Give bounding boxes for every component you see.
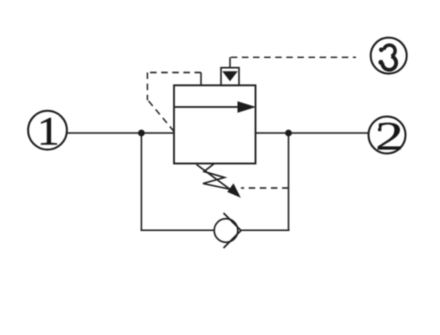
wire right branch down (288, 133, 290, 230)
junction node right (285, 130, 292, 137)
dashed drain line (241, 187, 289, 189)
wire port1 to valve body (67, 132, 174, 134)
check valve seat (224, 213, 242, 248)
wire bottom right (241, 229, 290, 231)
dashed pilot line horizontal (147, 72, 201, 74)
port circle 1 (28, 111, 67, 150)
valve body (174, 85, 256, 163)
check valve ball (214, 219, 238, 243)
spring (203, 164, 229, 189)
port circle 3 (371, 38, 407, 74)
label 3 (378, 45, 396, 70)
flow arrow shaft (175, 106, 240, 108)
junction node left (138, 130, 145, 137)
svg-text:1: 1 (37, 110, 59, 154)
pilot triangle (222, 71, 237, 81)
wire bottom left (141, 229, 215, 231)
dashed vent line to port 3 (231, 56, 356, 58)
adjustment arrow shaft (197, 165, 234, 192)
pilot line drop to body (200, 73, 202, 86)
vent stub line (229, 57, 231, 67)
svg-text:2: 2 (375, 113, 403, 158)
port circle 2 (369, 117, 406, 154)
dashed pilot line vertical (146, 73, 148, 101)
dashed pilot line diagonal (147, 100, 174, 132)
wire valve body to port2 (256, 132, 369, 134)
wire left branch down (140, 133, 142, 230)
adjustment arrow head (227, 183, 241, 197)
pilot box (221, 68, 239, 86)
label 2 (375, 113, 403, 158)
flow arrow head (238, 101, 257, 113)
